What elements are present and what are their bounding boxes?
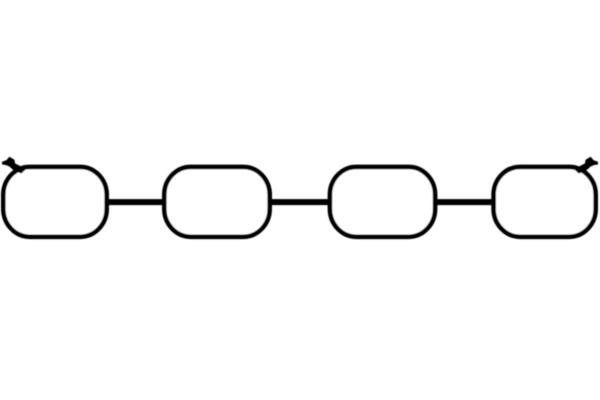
connecting web 2 xyxy=(270,199,330,205)
locating tab right xyxy=(574,157,598,174)
connecting web 3 xyxy=(435,199,493,205)
port opening 3 xyxy=(330,167,435,237)
port opening 2 xyxy=(164,167,269,237)
locating tab left xyxy=(2,157,26,174)
port opening 1 xyxy=(3,167,106,237)
port opening 4 xyxy=(494,167,596,237)
connecting web 1 xyxy=(106,199,166,205)
